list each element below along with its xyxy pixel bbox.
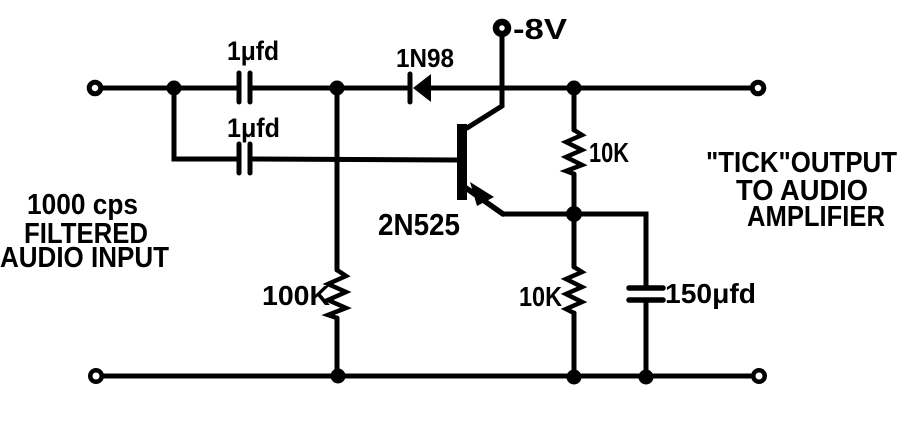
svg-text:100K: 100K: [262, 280, 330, 311]
wire: C3 to bottom rail: [644, 302, 649, 377]
svg-text:1N98: 1N98: [396, 43, 454, 73]
wire: emitter to junction: [503, 212, 568, 217]
diode D1 1N98: [410, 74, 431, 102]
svg-text:AMPLIFIER: AMPLIFIER: [747, 201, 885, 233]
terminal: audio input top-left: [89, 82, 101, 94]
wire: drop from cap junction to C2: [174, 88, 236, 159]
svg-text:2N525: 2N525: [378, 207, 460, 242]
resistor R3 100K: [328, 88, 346, 377]
capacitor C3 150ufd: [629, 288, 663, 300]
node: bottom rail / 150ufd junction: [639, 370, 654, 385]
terminal: audio input bottom-left: [90, 370, 102, 382]
power terminal: -8V: [496, 22, 508, 34]
resistor R2 10K (lower): [566, 214, 582, 377]
svg-text:1μfd: 1μfd: [227, 36, 279, 66]
wire: junction to output terminal: [574, 86, 750, 91]
capacitor C1 1ufd (top): [239, 73, 250, 102]
svg-text:1μfd: 1μfd: [227, 113, 280, 143]
svg-text:AUDIO INPUT: AUDIO INPUT: [0, 242, 169, 274]
svg-text:10K: 10K: [519, 281, 562, 312]
wire: C2 to transistor base (crosses 100K line): [253, 159, 457, 160]
resistor R1 10K (upper): [566, 88, 582, 214]
wire: junction to diode anode: [337, 86, 407, 91]
wire: input terminal to cap junction: [102, 86, 168, 91]
terminal: tick output bottom-right: [753, 370, 765, 382]
svg-text:1000 cps: 1000 cps: [27, 189, 138, 221]
node: top rail / 10K resistor junction: [567, 81, 582, 96]
transistor Q1 2N525: [457, 124, 503, 214]
node: junction of capacitor left plates: [167, 81, 182, 96]
wire: bottom rail: [103, 374, 751, 379]
svg-text:150μfd: 150μfd: [665, 278, 756, 309]
wire: -8V to collector: [467, 36, 502, 128]
wire: junction to C1 left plate: [174, 86, 236, 91]
capacitor C2 1ufd (bottom): [239, 144, 250, 173]
node: top rail / 100K resistor junction: [330, 81, 345, 96]
terminal: tick output top-right: [752, 82, 764, 94]
node: emitter / 10K / 150ufd junction: [566, 206, 582, 222]
wire: C1 right plate to 100K junction: [253, 86, 331, 91]
wire: emitter junction to 150ufd cap: [574, 214, 646, 285]
node: bottom rail / 10K junction: [567, 370, 582, 385]
wire: diode to 10K junction (crosses collector lead): [431, 86, 568, 91]
node: bottom rail / 100K junction: [331, 369, 346, 384]
svg-text:10K: 10K: [589, 137, 629, 168]
svg-text:-8V: -8V: [513, 14, 568, 46]
